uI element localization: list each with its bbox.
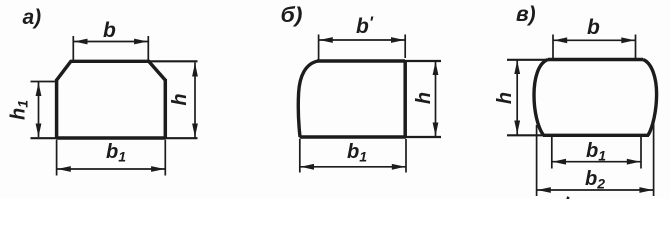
profile B left curved side	[298, 61, 318, 137]
profile C right bulged side	[643, 60, 657, 136]
dimension b' right arrow	[391, 37, 405, 43]
profile A bottom extensions	[31, 137, 198, 139]
profile B bottom extension toward h dimension	[406, 136, 441, 138]
dimension b1 line (fig B)	[300, 166, 406, 168]
dimension b1 right arrow (fig B)	[392, 164, 406, 170]
dimension b1 left arrow (fig C)	[553, 159, 567, 165]
profile A right shoulder slope	[148, 61, 166, 81]
profile C top extension toward h dimension	[507, 59, 548, 61]
dimension b' line	[319, 39, 406, 41]
dimension h top arrow (fig C)	[514, 61, 520, 75]
dimension h1 bottom arrow	[36, 124, 42, 138]
dimension b2 right arrow (fig C)	[639, 187, 653, 193]
svg-text:h: h	[413, 92, 435, 104]
dimension b1 left arrow (fig A)	[57, 166, 71, 172]
dimension h bottom arrow (fig B)	[433, 123, 439, 137]
profile A bottom edge	[56, 136, 166, 139]
dimension b2 extension lines (fig C)	[537, 119, 654, 196]
profile A top edge	[71, 60, 150, 63]
dimension b1 extension lines (fig C)	[552, 137, 641, 169]
dimension h bottom arrow (fig A)	[192, 124, 198, 138]
dimension h top arrow (fig A)	[192, 63, 198, 77]
cropped caption mark	[566, 196, 569, 199]
svg-text:а): а)	[23, 6, 42, 29]
svg-text:h: h	[169, 93, 191, 105]
dimension b line (fig C)	[553, 39, 636, 41]
dimension b1 right arrow (fig C)	[627, 159, 641, 165]
dimension b1 right arrow (fig A)	[151, 166, 165, 172]
profile B top edge	[317, 59, 405, 62]
dimension h line (fig C)	[516, 60, 518, 135]
profile C bottom edge	[543, 134, 649, 137]
dimension h line (fig B)	[435, 61, 437, 137]
profile A left side	[55, 79, 59, 138]
dimension b left arrow (fig C)	[554, 37, 568, 43]
dimension h1 top arrow	[36, 83, 42, 97]
profile A right side	[164, 79, 168, 138]
svg-text:b: b	[587, 16, 600, 39]
svg-text:в): в)	[516, 3, 536, 26]
svg-text:б): б)	[281, 4, 303, 27]
dimension b1 line (fig C)	[552, 161, 641, 163]
profile C bottom extension toward h dimension	[507, 134, 543, 136]
dimension b' left arrow	[319, 37, 333, 43]
dimension h bottom arrow (fig C)	[514, 121, 520, 135]
svg-text:h: h	[494, 92, 516, 104]
dimension h line (fig A)	[194, 63, 196, 138]
dimension b right arrow (fig C)	[621, 37, 635, 43]
dimension h top arrow (fig B)	[433, 62, 439, 76]
dimension b1 line (fig A)	[57, 168, 166, 170]
dimension b1 extension lines (fig A)	[57, 140, 166, 176]
dimension b left arrow (fig A)	[74, 39, 88, 45]
profile B bottom edge	[300, 135, 407, 138]
dimension b extension lines (fig C)	[553, 35, 636, 59]
dimension h1 extension line	[31, 81, 56, 83]
profile A top extension toward h dimension	[149, 60, 198, 62]
dimension b' extension lines	[319, 35, 406, 61]
dimension b right arrow (fig A)	[134, 39, 148, 45]
dimension b2 line (fig C)	[537, 189, 654, 191]
dimension b1 extension lines (fig B)	[300, 139, 406, 173]
profile B top extension toward h dimension	[405, 60, 441, 62]
dimension b1 left arrow (fig B)	[301, 164, 315, 170]
profile C top edge	[548, 58, 643, 61]
svg-text:b: b	[103, 19, 116, 42]
dimension h1 line	[38, 82, 40, 137]
dimension b extension lines (fig A)	[73, 36, 148, 60]
dimension b line (fig A)	[73, 41, 148, 43]
dimension b2 left arrow (fig C)	[537, 187, 551, 193]
profile B right side	[403, 60, 407, 138]
profile A left shoulder slope	[56, 61, 71, 81]
profile C left bulged side	[534, 60, 548, 136]
